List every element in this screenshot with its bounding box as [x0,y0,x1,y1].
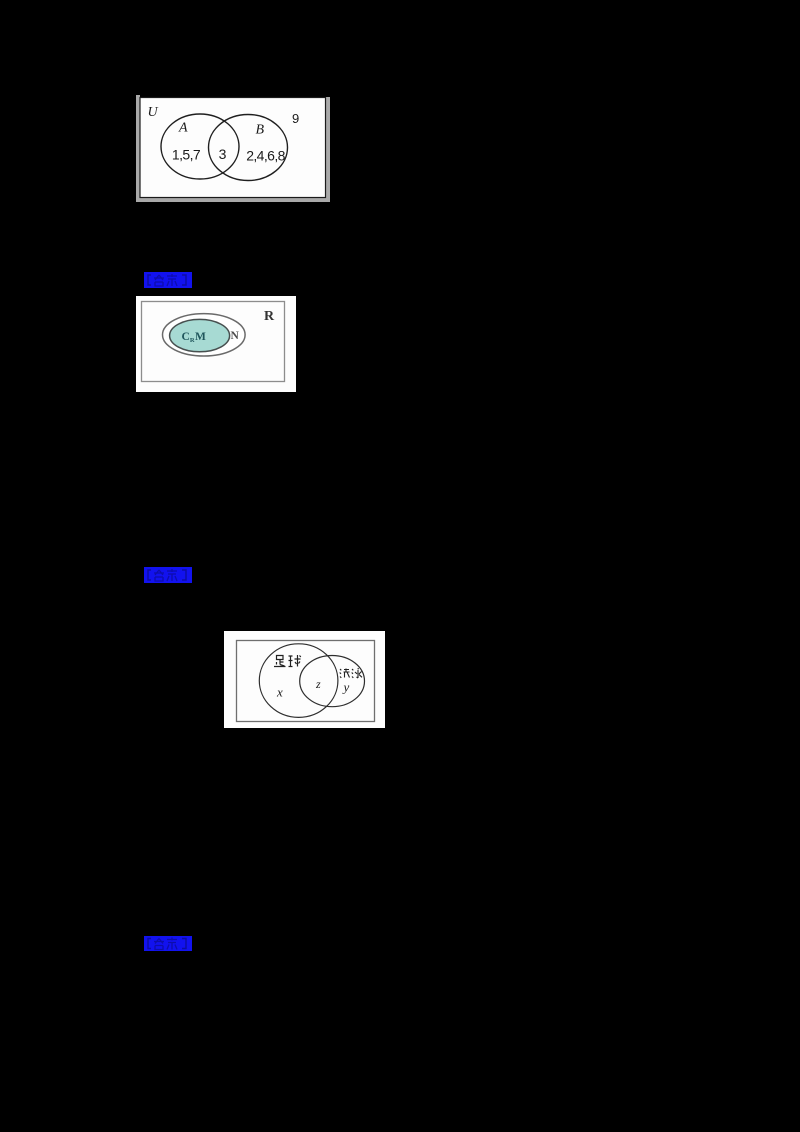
bracket right [182,939,186,949]
blue highlighted tag 2 [144,567,192,583]
glyph blob 2 [167,569,177,581]
svg-text:A: A [178,121,188,136]
svg-text:2,4,6,8: 2,4,6,8 [246,148,285,164]
ellipse N (outer) [163,314,246,356]
white picture area [136,296,296,392]
circle swimming [300,656,365,707]
label qiu (ball) [289,655,301,667]
glyph blob 2 [167,938,177,950]
gray scan border left [136,95,140,202]
scanned figure 1: Venn diagram U with circles A and B [136,95,330,202]
circle B [209,115,288,181]
bracket right [182,570,186,580]
bracket right [182,275,186,285]
blue highlighted tag 1 [144,272,192,288]
label yong (swim2) [352,668,362,678]
svg-text:B: B [256,123,265,138]
glyph blob 1 [154,275,164,286]
svg-text:9: 9 [292,111,299,126]
svg-text:U: U [148,105,159,120]
ellipse complement-of-M (teal) [170,319,230,351]
scanned figure 2: set M complement inside N inside R [136,296,296,392]
gray scan border right [325,97,330,202]
scanned figure 3: Venn diagram football / swimming [224,631,385,728]
inner drawn rectangle [237,641,375,722]
svg-text:y: y [342,680,350,695]
gray scan border bottom [136,197,330,202]
glyph blob 2 [167,274,177,286]
circle football [259,644,338,718]
svg-text:x: x [276,685,283,700]
label you (swim) [340,669,350,678]
blue highlighted tag 3 [144,936,192,951]
glyph blob 1 [154,939,164,950]
inner drawn rectangle R [142,302,285,382]
svg-text:3: 3 [219,146,227,162]
bracket left [148,275,151,285]
white picture area with dark frame [140,98,326,198]
svg-text:z: z [315,677,321,691]
svg-text:N: N [231,330,240,342]
svg-text:1,5,7: 1,5,7 [172,147,201,163]
white picture area [224,631,385,728]
circle A [161,114,239,179]
svg-text:R: R [264,309,275,324]
glyph blob 1 [154,570,164,581]
label zu (foot) [274,656,286,667]
bracket left [148,570,151,580]
bracket left [148,939,151,949]
